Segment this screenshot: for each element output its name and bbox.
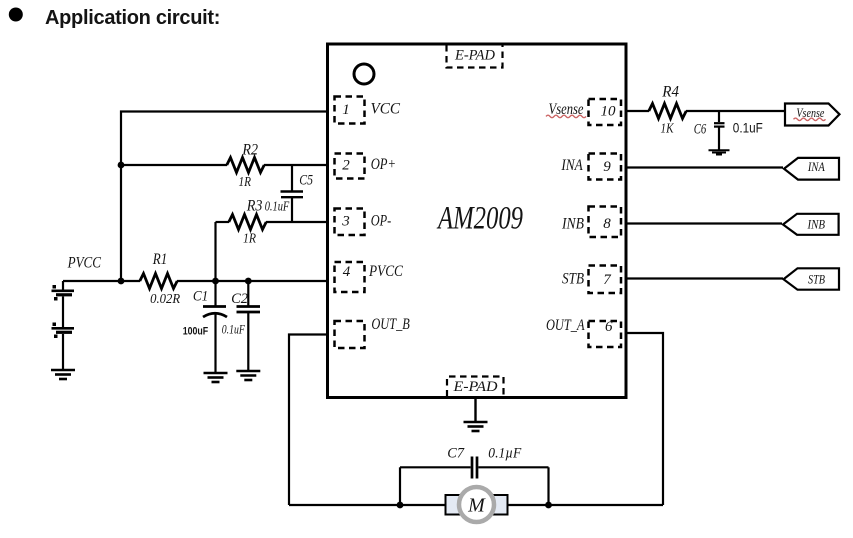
svg-text:10: 10 [601,103,617,119]
svg-text:OP-: OP- [371,213,392,230]
svg-text:OUT_A: OUT_A [546,317,585,334]
svg-text:2: 2 [342,158,350,174]
svg-text:INA: INA [561,157,583,174]
svg-text:C6: C6 [694,122,707,138]
svg-text:7: 7 [603,272,612,288]
svg-text:C2: C2 [231,291,248,307]
svg-text:0.1uF: 0.1uF [222,322,246,337]
svg-text:OP+: OP+ [371,156,396,173]
svg-text:AM2009: AM2009 [437,201,523,237]
svg-text:M: M [467,495,486,517]
svg-text:C5: C5 [299,173,313,189]
svg-text:E-PAD: E-PAD [452,379,497,395]
svg-text:OUT_B: OUT_B [371,316,410,333]
svg-text:1R: 1R [243,232,256,247]
svg-text:1R: 1R [239,175,252,190]
svg-text:0.02R: 0.02R [150,292,180,307]
svg-text:6: 6 [605,319,613,335]
svg-text:3: 3 [341,214,350,230]
svg-text:E-PAD: E-PAD [454,48,495,64]
svg-text:1: 1 [342,102,350,118]
svg-text:STB: STB [808,271,825,286]
svg-text:STB: STB [562,271,584,288]
svg-text:C7: C7 [447,446,465,462]
svg-text:INB: INB [807,216,825,231]
svg-text:PVCC: PVCC [67,255,101,272]
svg-text:100uF: 100uF [183,325,209,337]
svg-text:9: 9 [603,159,611,175]
svg-text:VCC: VCC [371,101,401,118]
svg-text:R1: R1 [152,251,167,268]
svg-text:R4: R4 [661,84,679,101]
svg-text:0.1uF: 0.1uF [265,199,290,214]
svg-text:INA: INA [807,159,825,174]
svg-text:1K: 1K [661,122,675,137]
svg-text:R2: R2 [242,142,258,159]
svg-text:0.1µF: 0.1µF [488,446,522,462]
svg-text:INB: INB [561,216,584,233]
svg-text:Application circuit:: Application circuit: [45,7,220,29]
svg-text:4: 4 [343,264,351,280]
svg-text:C1: C1 [193,289,208,305]
svg-text:0.1uF: 0.1uF [733,120,763,136]
svg-text:PVCC: PVCC [368,263,403,280]
svg-text:8: 8 [603,216,611,232]
svg-text:R3: R3 [246,197,263,214]
